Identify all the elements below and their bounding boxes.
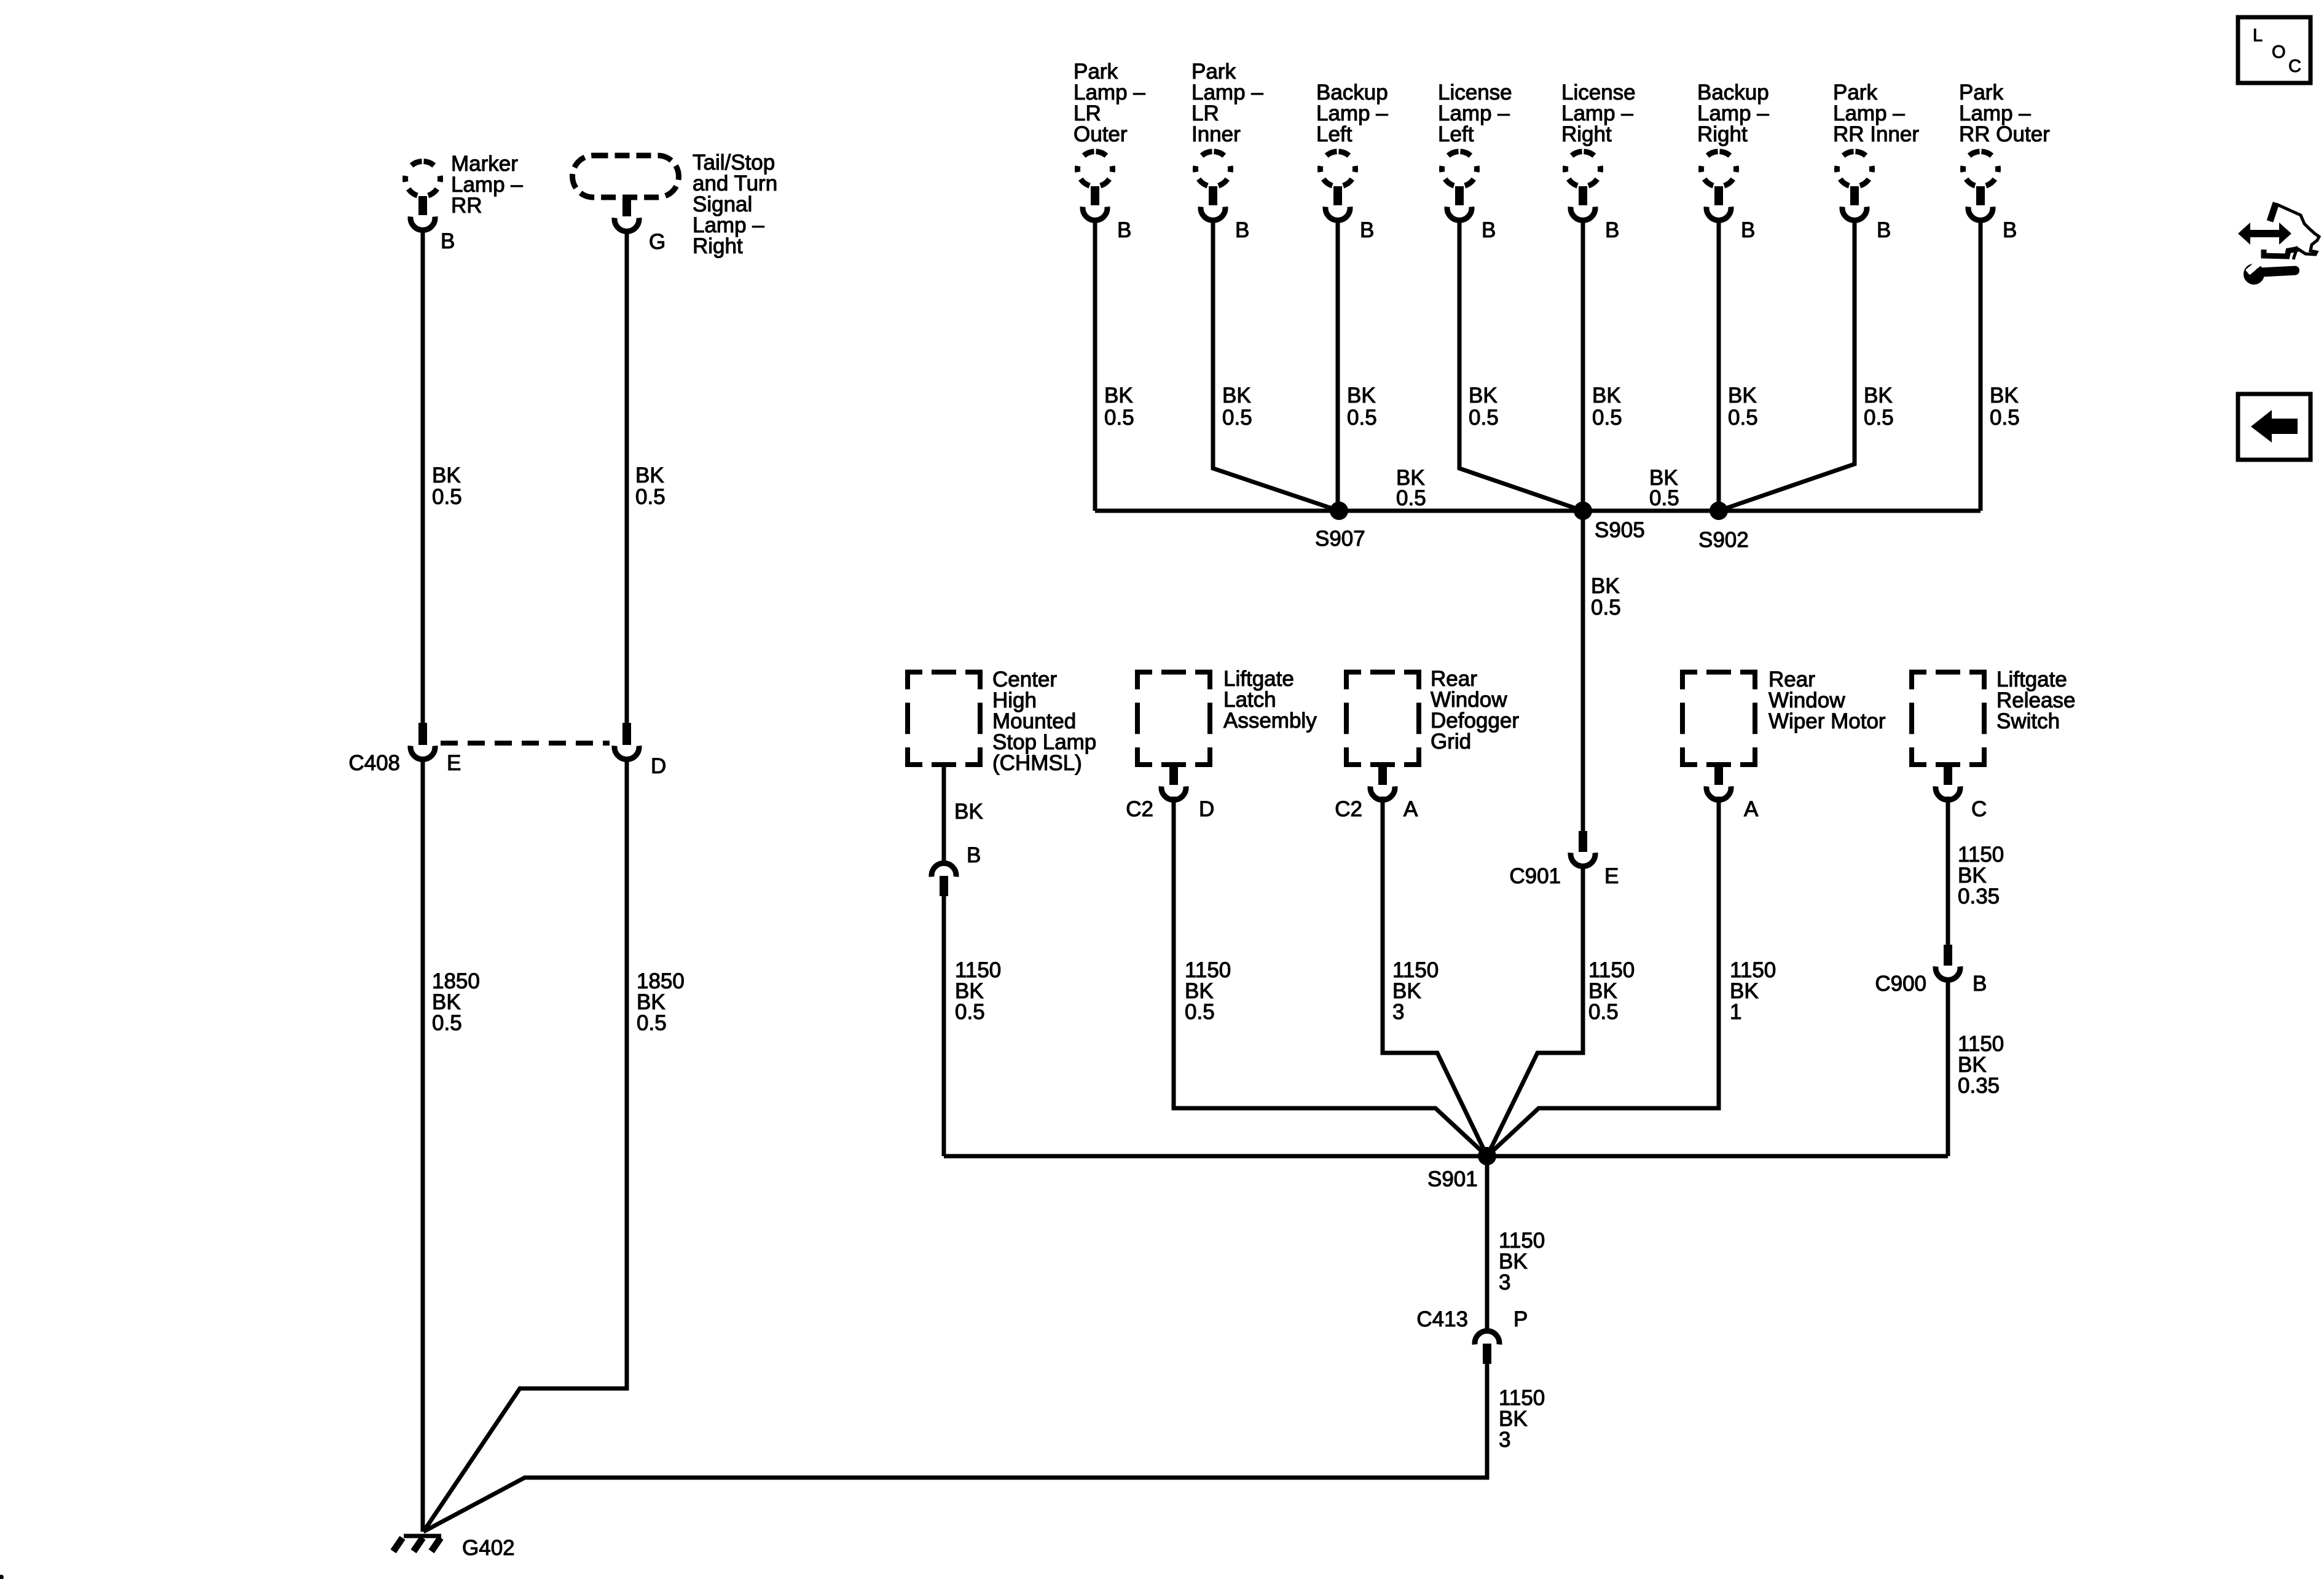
svg-text:0.5: 0.5 xyxy=(1588,1000,1619,1024)
wire marker lamp to C408-E xyxy=(421,227,425,723)
wire C413 to G402 xyxy=(423,1364,1487,1532)
svg-text:Right: Right xyxy=(1561,122,1612,146)
svg-text:B: B xyxy=(1877,218,1891,242)
svg-text:BK: BK xyxy=(1591,574,1620,598)
wire park lamp LR outer to bus xyxy=(1093,218,1097,511)
svg-text:C900: C900 xyxy=(1875,972,1926,996)
svg-text:Right: Right xyxy=(1697,122,1748,146)
svg-text:S901: S901 xyxy=(1427,1167,1478,1191)
connector C408 pin D xyxy=(622,723,631,745)
svg-text:C413: C413 xyxy=(1416,1307,1468,1331)
svg-text:BK: BK xyxy=(1222,384,1251,408)
svg-text:BK: BK xyxy=(954,800,983,824)
svg-text:G: G xyxy=(649,230,665,254)
svg-text:BK: BK xyxy=(432,463,461,487)
svg-text:RR: RR xyxy=(451,194,482,218)
wire wiper to S901 xyxy=(1487,797,1719,1156)
svg-text:S905: S905 xyxy=(1595,518,1645,542)
connector C901 pin E xyxy=(1579,831,1587,852)
svg-text:Assembly: Assembly xyxy=(1223,709,1317,733)
svg-text:0.5: 0.5 xyxy=(1728,406,1758,430)
wire license lamp right to S905 xyxy=(1581,218,1585,511)
wire S905 to C901 xyxy=(1581,511,1585,831)
svg-text:Grid: Grid xyxy=(1431,730,1471,754)
wire park lamp RR inner to S902 xyxy=(1719,218,1855,511)
svg-text:Inner: Inner xyxy=(1191,122,1241,146)
svg-text:BK: BK xyxy=(635,463,664,487)
svg-text:BK: BK xyxy=(1728,384,1757,408)
wire release to C900 xyxy=(1946,797,1950,945)
svg-text:BK: BK xyxy=(1864,384,1893,408)
component liftgate release switch xyxy=(1912,672,1984,765)
component liftgate latch assembly xyxy=(1137,672,1210,765)
component rear window defogger grid xyxy=(1346,672,1419,765)
svg-text:3: 3 xyxy=(1392,1000,1404,1024)
svg-text:Outer: Outer xyxy=(1074,122,1128,146)
svg-text:0.5: 0.5 xyxy=(1990,406,2020,430)
svg-text:0.5: 0.5 xyxy=(1396,486,1426,510)
svg-text:BK: BK xyxy=(1347,384,1376,408)
svg-text:0.5: 0.5 xyxy=(432,485,462,509)
navigate icon outline xyxy=(2270,203,2276,221)
svg-text:Wiper Motor: Wiper Motor xyxy=(1769,709,1886,733)
svg-text:0.5: 0.5 xyxy=(1649,486,1679,510)
connector C900 pin B xyxy=(1944,945,1952,966)
svg-text:D: D xyxy=(1199,797,1214,821)
wire CHMSL to connector B xyxy=(942,765,946,861)
svg-text:Right: Right xyxy=(693,234,743,258)
connector wiper pin A xyxy=(1714,765,1723,785)
svg-text:0.5: 0.5 xyxy=(1104,406,1134,430)
wire C900 to S901 bus xyxy=(1946,977,1950,1156)
connector defogger pin A xyxy=(1378,765,1387,785)
svg-text:B: B xyxy=(1360,218,1374,242)
wire latch to S901 xyxy=(1174,797,1487,1156)
navigate icon wrench xyxy=(2244,264,2264,285)
wire S901 bus xyxy=(944,1154,1948,1159)
svg-text:B: B xyxy=(2003,218,2017,242)
svg-text:B: B xyxy=(1117,218,1131,242)
splice S905 xyxy=(1574,502,1592,520)
svg-text:BK: BK xyxy=(1104,384,1133,408)
svg-text:0.5: 0.5 xyxy=(1185,1000,1215,1024)
ground G402 xyxy=(404,1534,441,1538)
svg-text:B: B xyxy=(1482,218,1496,242)
splice S901 xyxy=(1478,1147,1496,1165)
svg-text:0.5: 0.5 xyxy=(1469,406,1499,430)
svg-text:BK: BK xyxy=(1469,384,1498,408)
svg-text:3: 3 xyxy=(1499,1428,1510,1452)
svg-text:C: C xyxy=(1971,797,1987,821)
svg-text:RR Inner: RR Inner xyxy=(1833,122,1919,146)
svg-text:(CHMSL): (CHMSL) xyxy=(992,751,1082,775)
connector B inline CHMSL xyxy=(932,863,956,876)
svg-text:C2: C2 xyxy=(1126,797,1153,821)
wire park lamp LR inner to S907 xyxy=(1213,218,1339,511)
wire ground bus top xyxy=(1095,509,1981,513)
svg-text:0.35: 0.35 xyxy=(1958,884,2000,908)
svg-text:0.5: 0.5 xyxy=(955,1000,985,1024)
svg-text:B: B xyxy=(1973,972,1987,996)
connector C413 pin P xyxy=(1475,1331,1499,1344)
component rear window wiper motor xyxy=(1682,672,1755,765)
wire S901 to C413 xyxy=(1485,1156,1490,1328)
svg-text:BK: BK xyxy=(1592,384,1621,408)
svg-text:D: D xyxy=(651,754,666,778)
navigate icon double arrow xyxy=(2238,222,2291,245)
svg-text:P: P xyxy=(1513,1307,1528,1331)
svg-text:0.5: 0.5 xyxy=(635,485,665,509)
splice S902 xyxy=(1710,502,1728,520)
wire C408-E to G402 xyxy=(421,757,425,1532)
svg-text:S902: S902 xyxy=(1698,528,1749,552)
wire backup lamp right to S902 xyxy=(1717,218,1721,511)
svg-text:G402: G402 xyxy=(462,1536,515,1560)
dashed link C408 xyxy=(441,741,610,746)
svg-text:0.5: 0.5 xyxy=(432,1011,462,1035)
svg-text:1: 1 xyxy=(1730,1000,1741,1024)
svg-text:Switch: Switch xyxy=(1996,709,2060,733)
wire C901 to S901 xyxy=(1487,864,1583,1156)
svg-text:B: B xyxy=(441,229,455,253)
svg-text:Left: Left xyxy=(1438,122,1474,146)
svg-text:0.5: 0.5 xyxy=(1864,406,1894,430)
wire C408-D to G402 xyxy=(423,757,627,1532)
svg-text:C: C xyxy=(2288,57,2301,76)
svg-text:RR Outer: RR Outer xyxy=(1959,122,2050,146)
svg-text:Left: Left xyxy=(1316,122,1352,146)
svg-text:A: A xyxy=(1744,797,1759,821)
svg-text:0.5: 0.5 xyxy=(1222,406,1252,430)
svg-text:C2: C2 xyxy=(1335,797,1362,821)
svg-text:0.5: 0.5 xyxy=(637,1011,667,1035)
svg-text:A: A xyxy=(1403,797,1418,821)
svg-text:C408: C408 xyxy=(348,751,400,775)
connector C408 pin E xyxy=(418,723,427,745)
wire park lamp RR outer to bus xyxy=(1979,218,1983,511)
wire defogger to S901 xyxy=(1383,797,1487,1156)
svg-text:0.5: 0.5 xyxy=(1591,596,1621,620)
wire backup lamp left to S907 xyxy=(1336,218,1340,511)
connector release pin C xyxy=(1944,765,1952,785)
svg-text:B: B xyxy=(967,843,981,867)
wire tail lamp to C408-D xyxy=(625,229,629,723)
wire license lamp left to S905 xyxy=(1459,218,1583,511)
svg-text:L: L xyxy=(2253,26,2263,45)
svg-text:B: B xyxy=(1605,218,1619,242)
svg-text:B: B xyxy=(1741,218,1755,242)
svg-text:0.35: 0.35 xyxy=(1958,1074,2000,1098)
connector latch pin D xyxy=(1169,765,1178,785)
svg-text:S907: S907 xyxy=(1315,527,1365,551)
splice S907 xyxy=(1330,502,1348,520)
wire CHMSL to S901 bus xyxy=(942,896,946,1156)
component CHMSL xyxy=(908,672,980,765)
LOC logo box xyxy=(2238,17,2310,83)
back arrow box xyxy=(2238,394,2310,460)
svg-text:E: E xyxy=(447,751,461,775)
svg-text:C901: C901 xyxy=(1509,864,1561,888)
svg-text:E: E xyxy=(1604,864,1619,888)
svg-text:B: B xyxy=(1235,218,1249,242)
svg-text:0.5: 0.5 xyxy=(1347,406,1377,430)
svg-text:O: O xyxy=(2272,42,2286,62)
svg-text:0.5: 0.5 xyxy=(1592,406,1622,430)
svg-text:BK: BK xyxy=(1990,384,2019,408)
page corner mark xyxy=(0,1575,4,1579)
svg-text:3: 3 xyxy=(1499,1270,1510,1294)
